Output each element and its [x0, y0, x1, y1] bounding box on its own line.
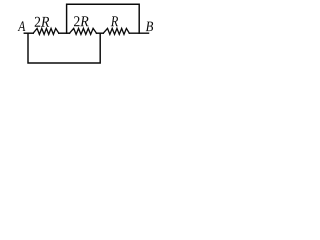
node A label	[18, 21, 26, 31]
node B label	[146, 22, 153, 32]
wire from R1 to R2 (junction J2 tap at x=66.6)	[59, 32, 70, 34]
resistor R2 value 2R (middle)	[70, 28, 97, 34]
label 2R for R1	[35, 17, 49, 27]
label 2R for R2	[74, 16, 88, 26]
wire from R2 to R3 (junction J3 tap at x=100.2)	[97, 32, 104, 34]
resistor R3 value R (right)	[103, 28, 129, 34]
label R for R3	[111, 16, 118, 26]
wire shorting loop top (across R2 and R3)	[67, 4, 140, 33]
wire shorting loop bottom (across R1 and R2)	[28, 33, 100, 63]
wire from node A to resistor R1 (junction J1 tap at x=28)	[24, 32, 33, 34]
wire from R3 to node B (junction J4 tap at x=139.2)	[129, 32, 148, 34]
resistor R1 value 2R (left)	[33, 28, 59, 34]
